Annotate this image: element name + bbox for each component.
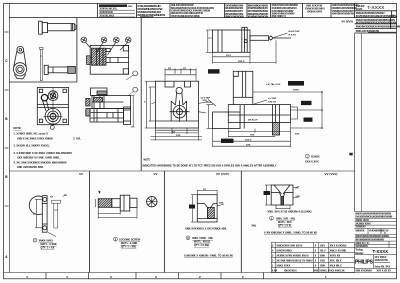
svg-text:XVKXWXVNKXAXKXWXNKXVXWN: XVKXWXVNKXAXKXWXNKXVXWN	[355, 216, 392, 219]
sheet frame inner left margin line	[8, 3, 10, 272]
svg-text:XKXVKHNHXHXVLWNK: XKXVKHNHXHXVLWNK	[171, 14, 200, 18]
parts list rows text	[272, 245, 347, 268]
svg-text:XVNKL XVKX XNKV.XK: XVNKL XVKX XNKV.XK	[319, 271, 345, 273]
left margin zone ticks	[5, 32, 9, 206]
svg-text:XNV'X XK XNKX XVKX XNKW: XNV'X XK XNKX XVKX XNKW	[17, 136, 53, 140]
svg-text:XNV: XNV	[314, 271, 319, 273]
bottom margin zone numbers	[26, 275, 327, 279]
svg-text:☐ XVL: ☐ XVL	[73, 136, 81, 140]
svg-text:2. XKXNV XLL XNKXV XVKXL.: 2. XKXNV XLL XNKXV XVKXL.	[14, 144, 51, 148]
svg-text:XLNXX: XLNXX	[311, 155, 320, 159]
svg-text:XX.X: XX.X	[226, 55, 232, 57]
svg-text:XNKXVXKX XNV XKXV: XNKXVXKX XNV XKXV	[276, 245, 302, 248]
svg-text:XKXV XN: XKXV XN	[330, 255, 341, 258]
svg-text:∠V TAP: ∠V TAP	[268, 97, 277, 100]
title block frame rows	[355, 212, 397, 269]
svg-text:XNK XVKXNVXK XNK.: XNK XVKXNVXK XNK.	[17, 165, 44, 169]
assembly 2 right dimension	[131, 96, 135, 128]
svg-text:XXXX: XXXX	[293, 90, 299, 92]
svg-text:XN X N XKXNV: XN X N XKXNV	[330, 245, 347, 248]
svg-text:XKVXNHXNKWXVKXVWXKHXNKXN: XKVXNHXNKWXVKXVWXKHXNKXN	[356, 22, 397, 25]
header cell C tolerance notes	[171, 3, 214, 18]
lower panel divider x241.3	[240, 171, 242, 273]
svg-text:XKX. XN.X: XKX. XN.X	[330, 260, 342, 263]
svg-text:XK XNK XNKXVXN XV XV XNKV: XK XNK XNKXVXN XV XV XNKV	[276, 260, 313, 263]
svg-text:XVKXNXKW: XVKXNXKW	[355, 246, 368, 248]
black label box 3	[304, 118, 313, 122]
svg-text:XKVN: XKVN	[356, 8, 363, 11]
svg-text:XNKX XVKX: XNKX XVKX	[276, 265, 290, 268]
section arrow mark near right column	[349, 153, 352, 156]
main field divider vertical x141	[140, 18, 142, 171]
svg-text:XKNXKXVKN: XKNXKXVKN	[307, 10, 322, 13]
svg-text:NOTE: NOTE	[144, 159, 151, 162]
bolt with flange head (top-left panel)	[39, 21, 76, 34]
svg-text:XVK: XVK	[320, 260, 325, 263]
drawing number box row lines (top right)	[355, 11, 397, 33]
balloon between views	[133, 71, 138, 76]
svg-text:XNK: XNK	[320, 255, 325, 258]
svg-text:XNKHNKXWXNKXVXKXNXNXVWXVHNK: XNKHNKXWXNKXVXKXNXNXVWXVHNK	[356, 26, 400, 29]
general notes list	[14, 126, 82, 169]
panel3 die opening detail	[197, 195, 217, 222]
lever (bell crank) side view	[13, 46, 26, 78]
svg-text:XXX XX: XXX XX	[268, 102, 276, 104]
header cell H cost block	[332, 4, 359, 15]
svg-text:XNK.X XV.XNK: XNK.X XV.XNK	[330, 250, 347, 253]
svg-text:XKXNK XVXN XKXNK XNV.X: XKXNK XVXN XKXNK XNV.X	[276, 255, 309, 258]
svg-text:XNKXVXKX: XNKXVXKX	[284, 271, 297, 273]
svg-text:X.NKXNK X XNKXN / XNKL TO 58-: X.NKXNK X XNKXN / XNKL TO 58-60 XK	[184, 254, 233, 258]
svg-text:T-XXXX: T-XXXX	[367, 5, 385, 11]
section bottom dims	[213, 123, 291, 143]
svg-text:XXX: XXX	[219, 203, 224, 205]
sheet frame inner bottom margin line	[4, 272, 397, 274]
svg-text:XX.X: XX.X	[206, 102, 212, 104]
balloon note right of section	[305, 154, 309, 158]
svg-text:4. XK. XNK XVKXNKX XNKXNV XNKX: 4. XK. XNK XVKXNKX XNKXNV XNKXVNKW	[14, 161, 68, 165]
svg-text:XXX: XXX	[295, 134, 300, 136]
left margin zone letters	[5, 59, 8, 259]
svg-text:∠8° TAL X.XX: ∠8° TAL X.XX	[266, 83, 281, 86]
assembly section view 1	[87, 46, 129, 75]
panel2 locking screw detail	[98, 195, 137, 211]
svg-text:XKV: XKV	[320, 245, 325, 248]
svg-text:ØX SLOT: ØX SLOT	[248, 120, 258, 122]
header cell E grid table	[248, 3, 269, 18]
svg-text:XNKXVK: XNKXVK	[355, 231, 364, 233]
svg-text:XXX: XXX	[176, 135, 181, 137]
assembly 1 item balloons	[81, 37, 131, 55]
svg-text:N: N	[392, 14, 394, 18]
section overall bottom dim	[213, 142, 291, 147]
svg-text:X.NK: X.NK	[272, 271, 278, 273]
header band cell dividers	[98, 3, 355, 17]
svg-text:3. X.KXNVXNK X XK XNKL XVNKX X: 3. X.KXNVXNK X XK XNKL XVNKX XNL/XNKXNV	[14, 151, 73, 155]
svg-text:PHILIPS: PHILIPS	[355, 260, 374, 266]
svg-text:XKVWXNWXKXVWXNKWN: XKVWXNWXKXVWXNKWN	[355, 239, 384, 242]
svg-text:XKX XNKXNV XV XNK. XVNK XNKL.: XKX XNKXNV XV XNK. XVNK XNKL.	[17, 155, 61, 159]
punch holder top view (center top)	[209, 27, 292, 52]
svg-text:XXX.X: XXX.X	[238, 61, 245, 63]
panel4 punch tip detail	[271, 185, 293, 205]
svg-text:XXX: XXX	[296, 196, 301, 198]
parts list header row	[272, 271, 345, 273]
svg-text:NOTE:: NOTE:	[14, 126, 22, 130]
svg-text:XXX: XXX	[250, 135, 255, 137]
svg-text:XNVHXHXVKNHXW: XNVHXHXVKNHXW	[332, 13, 355, 16]
svg-text:XXX-X.XXX: XXX-X.XXX	[305, 160, 319, 164]
main field divider vertical x77	[76, 18, 78, 82]
svg-text:X-XN XNKXNK X XNKL / XNKL TO 5: X-XN XNKXNK X XNKL / XNKL TO 58-60 XK	[264, 231, 317, 235]
section right side dims	[253, 92, 322, 128]
black label box upper	[208, 69, 220, 73]
svg-text:XKXNKV XVKX: XKXNKV XVKX	[355, 223, 371, 225]
svg-text:XNK XVKXNXK: XNK XVKXNXK	[355, 271, 372, 273]
die front view (center-left)	[156, 81, 199, 128]
svg-text:XVXNKXV: XVXNKXV	[355, 227, 366, 229]
revision column verticals	[354, 33, 356, 212]
header cell F material block	[272, 4, 299, 18]
svg-text:INDICATED HARDENING TO BE DONE: INDICATED HARDENING TO BE DONE AT LTD FC…	[143, 164, 277, 167]
svg-text:XXX.X: XXX.X	[245, 140, 252, 142]
plan view balloon	[50, 125, 54, 129]
svg-text:XNK-XVKXNKX X XN XVNKX+XNL: XNK-XVKXNKX X XN XVNKX+XNL	[185, 227, 227, 231]
header cell G scale block	[305, 5, 325, 14]
svg-text:QTY: 1 X XL: QTY: 1 X XL	[278, 225, 292, 228]
thin vertical pin	[40, 47, 43, 81]
panel3 dims	[191, 190, 224, 222]
black label box section A-A	[221, 139, 234, 143]
panel2 arrow mark	[98, 191, 101, 195]
title block size cell	[355, 257, 391, 273]
svg-text:XNKXVKVW: XNKXVKVW	[375, 260, 389, 262]
svg-text:QTY: 1 + XX: QTY: 1 + XX	[41, 247, 55, 250]
svg-text:XKV XNKX: XKV XNKX	[375, 257, 387, 259]
svg-text:XNK XNKV X: XNK XNKV X	[272, 15, 287, 18]
section left dims	[207, 105, 214, 129]
svg-text:QTY: 1 X XNL: QTY: 1 X XNL	[194, 244, 210, 247]
die front view right dimension arrow	[199, 102, 209, 114]
svg-text:XNKXL XKXV: XNKXL XKXV	[355, 220, 369, 222]
panel4 dims	[265, 185, 299, 210]
assembly 2 balloon	[133, 87, 138, 92]
svg-text:VV (VVV): VV (VVV)	[325, 172, 338, 176]
header band bottom line	[9, 17, 396, 19]
header cell D grid table	[225, 3, 244, 18]
assembly section view 2	[86, 88, 131, 125]
svg-text:XNKX XV. ( X ): XNKX XV. ( X )	[355, 243, 369, 245]
black label box 1	[288, 81, 304, 86]
svg-text:HOLE TAP: HOLE TAP	[289, 30, 300, 33]
svg-text:XNK.: XNK.	[320, 265, 326, 268]
panel1 pin detail	[52, 195, 66, 229]
svg-text:Number: Number	[355, 253, 363, 255]
svg-text:QTY: 1 + XNL: QTY: 1 + XNL	[121, 246, 137, 249]
svg-text:XVWNKXWXKVN: XVWNKXWXKVN	[248, 14, 269, 18]
punch holder bottom dims	[213, 40, 277, 63]
svg-text:VV (VVV): VV (VVV)	[216, 172, 229, 176]
large stepped section view (center right)	[213, 71, 291, 135]
svg-text:VV: VV	[79, 172, 83, 176]
panel1 detail dims	[35, 200, 56, 237]
black label box 2	[301, 101, 312, 105]
svg-text:Xvkw XN. XKV: Xvkw XN. XKV	[375, 267, 391, 269]
svg-text:XXVXXLVN.K: XXVXXLVN.K	[100, 15, 115, 18]
die holder plan view (block with circles)	[37, 87, 68, 126]
svg-text:XNWM.MN XW: XNWM.MN XW	[140, 16, 154, 18]
svg-text:XNL: XNL	[252, 225, 257, 228]
svg-text:VV: VV	[154, 172, 158, 176]
svg-text:XVKXNKXNK: XVKXNKXNK	[369, 231, 383, 233]
svg-text:T-XXXX: T-XXXX	[373, 249, 389, 254]
svg-text:XNK. XKX X7.63 XNKXN+0.05 (XNK: XNK. XKX X7.63 XNKXN+0.05 (XNK)	[268, 210, 312, 214]
header cell A signature rows	[99, 4, 135, 17]
panel1 bell crank detail drawing	[29, 196, 47, 233]
header cell B company stamp	[137, 4, 165, 19]
parts list table frame	[271, 243, 354, 273]
svg-text:XNKXVWXKXW: XNKXVWXKXW	[225, 14, 244, 18]
panel1 label	[33, 238, 57, 249]
svg-text:V2 V TAP: V2 V TAP	[201, 97, 211, 100]
svg-text:VV (VVV): VV (VVV)	[342, 19, 354, 23]
panel4 label	[252, 216, 296, 227]
die front view top dimension	[165, 68, 196, 80]
horizontal stud with threaded end	[44, 65, 75, 74]
bottom margin zone ticks	[46, 273, 264, 279]
svg-text:1. XVNKX XNKL XK. xxxxx X: 1. XVNKX XNKL XK. xxxxx X	[14, 132, 49, 136]
top right text rows	[356, 12, 400, 33]
svg-text:XK.V: XK.V	[320, 250, 326, 253]
svg-text:XN.X NK.X: XN.X NK.X	[330, 265, 342, 268]
main field divider horizontal y82	[9, 81, 77, 83]
die front view left dimensions	[145, 81, 156, 128]
panel2 screw dims	[96, 199, 138, 219]
panel3 label	[186, 236, 213, 247]
panel2 label	[114, 237, 141, 248]
title block text rows	[355, 212, 392, 254]
svg-text:XNV: XNV	[128, 6, 133, 8]
die front view bottom dimensions	[151, 128, 203, 141]
svg-text:Ø X.XX: Ø X.XX	[289, 35, 297, 37]
lower panel divider x89.5	[89, 171, 91, 273]
lower panel divider x164.5	[164, 171, 166, 273]
punch holder left dim	[206, 30, 213, 52]
svg-text:XVK X XK XV: XVK X XK XV	[377, 271, 392, 273]
svg-text:XXX: XXX	[246, 145, 251, 147]
lower panels divider horizontal y171	[9, 170, 354, 172]
panel2 end view circle	[146, 196, 158, 207]
svg-text:XVKXN XNKX: XVKXN XNKX	[276, 250, 292, 253]
svg-text:Tooling: Tooling	[355, 250, 363, 252]
